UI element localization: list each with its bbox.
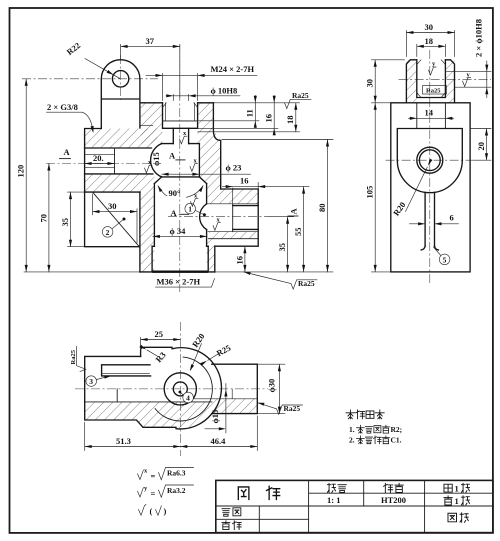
svg-text:Ra25: Ra25 [70, 349, 77, 364]
svg-text:51.3: 51.3 [116, 436, 131, 446]
dim 14 [409, 108, 454, 120]
svg-text:A: A [171, 208, 178, 218]
right bore bulge arc [200, 204, 207, 230]
Ra25 flag mid right [243, 270, 317, 289]
svg-text:3: 3 [89, 377, 93, 386]
hole inner circle [419, 150, 440, 171]
svg-text:ϕ15: ϕ15 [210, 410, 220, 424]
hatch right upper wall [199, 144, 220, 189]
dim 16 [264, 96, 276, 136]
svg-text:5: 5 [443, 256, 447, 265]
note 2 [349, 436, 402, 445]
callout M36x2-7H [156, 277, 215, 287]
dim 16 bottom right [234, 246, 246, 272]
svg-text:1: 1 [455, 484, 459, 494]
top block slot [417, 60, 446, 98]
boss right edge and fillet [213, 103, 220, 189]
roughness sym left port [145, 159, 153, 173]
header 比例 [327, 483, 346, 492]
left slot lines [102, 365, 151, 376]
outline step up [141, 347, 172, 356]
dim R20 leader [188, 331, 206, 371]
ext lines bottom left [24, 192, 140, 272]
dim 11 [245, 96, 257, 128]
svg-text:1: 1 [455, 496, 459, 506]
技术要求 heading [346, 410, 384, 419]
svg-text:6: 6 [450, 213, 454, 223]
svg-text:35: 35 [277, 243, 287, 252]
svg-text:A: A [64, 147, 71, 157]
label 制图 [222, 508, 241, 516]
small tick [116, 389, 118, 402]
svg-text:A: A [169, 150, 176, 160]
svg-text:Ra6.3: Ra6.3 [167, 469, 186, 478]
R25 outer arc upper [172, 348, 221, 414]
legend line 2: sqrt y = sqrt Ra3.2 [138, 485, 194, 499]
hatch right lower wall column [207, 239, 215, 272]
dim R3 leader [139, 345, 167, 365]
svg-text:16: 16 [264, 114, 274, 123]
step ticks at 246.3 [152, 245, 208, 247]
dim 51.3 and 46.4 [85, 416, 258, 451]
svg-text:): ) [164, 506, 167, 516]
roughness sym chamber [190, 157, 198, 171]
dim 35 right [277, 217, 289, 272]
body outline top left [85, 129, 140, 247]
dim 70 [38, 164, 50, 272]
dim 30 left [365, 60, 405, 103]
dim 80 [317, 140, 329, 272]
centerline top block [399, 78, 491, 80]
svg-text:90°: 90° [169, 188, 181, 198]
svg-text:ϕ30: ϕ30 [267, 379, 277, 393]
dim R20 leader [391, 159, 433, 218]
dim 105 [365, 103, 391, 272]
balloon 5 [434, 247, 450, 265]
hatch left upper band [85, 129, 157, 149]
main plate rectangle [391, 103, 470, 272]
label 图号 [448, 513, 468, 523]
dim 37 [121, 36, 180, 98]
left port thread lines [85, 154, 115, 167]
R25 outer arc lower [176, 414, 212, 429]
section label A left [60, 147, 71, 158]
section label A right rotated [288, 208, 299, 217]
left port thread end [114, 148, 116, 174]
seat chamfers 45deg [154, 177, 206, 184]
slot feet flares [421, 246, 438, 250]
svg-text:Ra25: Ra25 [284, 404, 301, 413]
svg-text:14: 14 [425, 108, 434, 118]
dim 18 [285, 103, 297, 132]
svg-text:30: 30 [425, 22, 434, 32]
lug hole circle [112, 71, 128, 87]
lower slot lines [425, 192, 434, 246]
balloon 1 [185, 203, 206, 216]
right block outline [212, 364, 258, 413]
svg-text:ϕ 34: ϕ 34 [170, 226, 187, 236]
svg-text:70: 70 [38, 214, 48, 223]
hatch top block left [406, 60, 416, 103]
svg-text:80: 80 [317, 204, 327, 213]
svg-text:M36 × 2-7H: M36 × 2-7H [157, 277, 201, 287]
dim 120 [16, 79, 28, 272]
body bottom face [140, 271, 215, 273]
hatch left mid band [85, 174, 155, 192]
chamber right wall [198, 144, 200, 177]
center circle small [173, 382, 187, 396]
M36 bore walls [152, 246, 208, 271]
left wall outer edge [139, 192, 141, 272]
R20 arc circle [155, 357, 212, 421]
svg-text:16: 16 [240, 176, 249, 186]
svg-text:30: 30 [365, 79, 375, 88]
diagonal edge lower-left block [93, 192, 140, 247]
svg-text:R2;: R2; [391, 425, 403, 434]
svg-text:105: 105 [365, 186, 375, 199]
svg-text:35: 35 [60, 218, 70, 227]
svg-text:25: 25 [155, 329, 164, 339]
hatch right port bottom wall [209, 232, 258, 239]
centerline lug horizontal [22, 78, 158, 80]
legend line 3: basic symbol [139, 505, 167, 517]
roughness sym boss neck [180, 130, 188, 144]
dim 35 left [60, 192, 72, 247]
legend line 1: sqrt x = sqrt Ra6.3 [138, 468, 194, 482]
ext lines bottom right [215, 140, 333, 272]
dim R22 leader [65, 40, 120, 78]
dim right vertical top [447, 61, 492, 98]
svg-text:M24 × 2-7H: M24 × 2-7H [211, 64, 255, 74]
chamber seat edge [162, 176, 200, 178]
roughness y right [463, 71, 471, 86]
svg-text:Ra25: Ra25 [298, 279, 315, 288]
svg-text:18: 18 [285, 116, 295, 125]
svg-text:ϕ 23: ϕ 23 [226, 163, 242, 173]
M36 thread bottom thick [152, 271, 208, 273]
right port thread end [232, 204, 234, 232]
svg-text:55: 55 [293, 228, 303, 237]
balloon 3 [86, 374, 112, 386]
header 材料 [384, 483, 404, 492]
dim 18 top [417, 36, 446, 57]
extension lines right of boss [163, 103, 300, 132]
hole outer circle [417, 147, 443, 173]
outline left block [85, 356, 176, 427]
svg-text:(: ( [150, 506, 153, 516]
section label A top [169, 150, 185, 160]
slot chamfer marks [417, 60, 446, 98]
Ra25 rotated flag left [70, 347, 86, 372]
Ra25 flag top right [285, 91, 312, 109]
svg-text:37: 37 [146, 36, 155, 46]
roughness sym right port bore [213, 216, 221, 230]
svg-text:30: 30 [108, 201, 117, 211]
dim 16 right port [223, 176, 310, 203]
dim R25 leader [200, 343, 232, 366]
svg-text:1.: 1. [349, 425, 355, 434]
title block outer box [216, 480, 493, 532]
hatch boss right wall [198, 103, 221, 144]
neck lines [417, 103, 446, 129]
svg-text:2 × ϕ10H8: 2 × ϕ10H8 [474, 19, 484, 57]
U bottom arc [397, 160, 462, 193]
svg-text:=: = [151, 489, 156, 499]
centerline left port [46, 163, 152, 165]
centerline vertical [429, 50, 431, 284]
svg-text:18: 18 [425, 36, 434, 46]
top block outline [406, 60, 454, 103]
svg-text:20: 20 [476, 142, 486, 151]
svg-text:Ra3.2: Ra3.2 [167, 486, 186, 495]
dim phi23 [162, 163, 251, 176]
svg-text:ϕ15: ϕ15 [151, 152, 161, 166]
right port thread thick [233, 206, 259, 230]
centerline main vertical [179, 44, 181, 292]
left port outer bore [85, 148, 153, 174]
title block grid lines [216, 480, 493, 532]
dim 25 [141, 329, 181, 352]
dim phi34 [153, 226, 207, 238]
cell 第1张 [444, 496, 470, 506]
Ra25 box in slot [423, 86, 447, 95]
body step line y192 [85, 191, 140, 193]
svg-text:16: 16 [234, 256, 244, 265]
roughness y in slot [429, 61, 437, 75]
hatch left lower wall column [140, 192, 154, 272]
dim 55 [293, 187, 305, 272]
Ra25 flag right [257, 401, 303, 414]
balloon 4 [179, 391, 194, 403]
thread minor lines [163, 103, 198, 121]
dim 30 [93, 194, 138, 243]
svg-text:Ra25: Ra25 [426, 87, 441, 94]
svg-text:1: 1: 1: 1 [327, 495, 340, 505]
dim 90deg [156, 184, 204, 198]
svg-text:A: A [289, 208, 299, 215]
callout 2xG3/8 [47, 102, 95, 133]
centerline horizontal [75, 388, 268, 390]
balloon 2 [102, 218, 125, 238]
hatch right band [212, 399, 257, 414]
dim 30 top [406, 22, 454, 56]
dim phi15 [205, 384, 227, 433]
hatch center under arc [85, 402, 212, 429]
centerline vertical [179, 322, 181, 456]
dim 20 [85, 153, 115, 165]
svg-text:11: 11 [245, 109, 255, 117]
lug outline [101, 60, 140, 128]
hatch boss left wall [141, 103, 163, 144]
hatch top boundary line [85, 401, 212, 403]
svg-text:2: 2 [106, 228, 110, 237]
upper small bore [173, 128, 188, 143]
hatch top block right [445, 60, 454, 103]
label 审核 [222, 521, 241, 530]
center circle big [164, 373, 196, 405]
centerline hole horizontal [386, 159, 474, 161]
svg-text:4: 4 [186, 394, 190, 403]
note 1 [349, 425, 402, 434]
phi34 bore walls [154, 184, 206, 247]
svg-text:46.4: 46.4 [211, 436, 227, 446]
callout phi10H8 [166, 86, 240, 101]
svg-text:1: 1 [188, 205, 192, 214]
bore line right [193, 389, 257, 399]
M24 thread bore [163, 103, 198, 129]
dim 20 right [470, 129, 491, 161]
title text 阀体 [238, 486, 279, 499]
boss top face [141, 102, 214, 104]
section label A mid [171, 208, 189, 218]
svg-text:120: 120 [16, 165, 26, 178]
bore top chamfer marks [163, 103, 198, 108]
centerline lug vertical [120, 55, 122, 100]
chamber left bulge arc [151, 144, 162, 177]
centerline right port [168, 216, 268, 218]
svg-text:=: = [151, 471, 156, 481]
svg-text:ϕ 10H8: ϕ 10H8 [211, 86, 238, 96]
callout M24x2-7H [146, 64, 257, 101]
dim phi30 [257, 364, 285, 413]
svg-text:Ra25: Ra25 [292, 91, 309, 100]
inner boss U shape [397, 129, 462, 161]
svg-text:C1.: C1. [391, 436, 402, 445]
svg-text:20.: 20. [93, 153, 104, 163]
dim 6 slot [410, 213, 459, 226]
chamber top face [162, 143, 200, 145]
hatch right port top wall [208, 189, 259, 204]
svg-text:HT200: HT200 [381, 495, 406, 505]
svg-text:2 × G3/8: 2 × G3/8 [47, 102, 78, 112]
svg-text:2.: 2. [349, 436, 355, 445]
header 共1张 [444, 483, 470, 493]
stub bottom face line [209, 238, 259, 240]
right port stub outline [215, 189, 258, 272]
roughness sym seat right [191, 192, 199, 206]
right port bore lines [208, 204, 259, 232]
lug rear edge segment [141, 124, 153, 126]
